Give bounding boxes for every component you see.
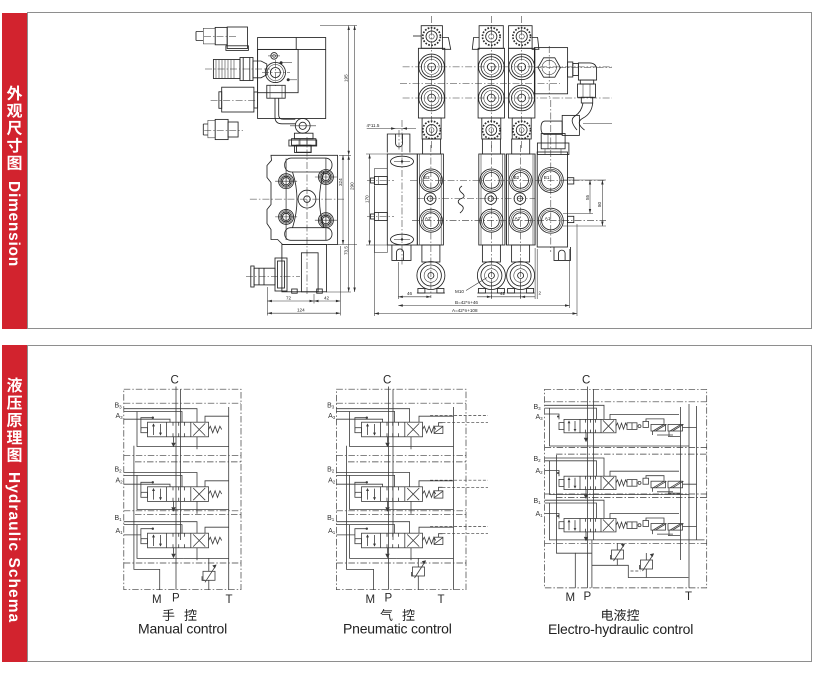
load check arrow under V3 (S2) [385,548,389,558]
body right end section [535,152,567,247]
svg-text:Hydraulic Schema: Hydraulic Schema [5,472,22,623]
P and C lines S1 [176,387,181,590]
pilot screw [268,53,280,60]
directional valve V1 (pneumatic) [355,417,436,437]
svg-text:A2: A2 [116,478,124,485]
center port circle (left view) [298,190,316,208]
M P T labels S1 [152,593,233,607]
caption S3 [602,609,613,621]
connections S3 [545,405,697,540]
load check arrow under V3 (S3) [584,532,588,542]
bottom pilot caps [417,245,445,293]
relief valve RV2 S3 [640,553,655,571]
stems joining columns to body [423,139,530,154]
directional valve V2 (pneumatic) [355,481,436,501]
right end bolts [568,178,574,223]
boundary box S2 [336,389,466,590]
bottom section box [27,345,812,662]
ports B3/A3 section1 [419,169,442,232]
connections S1 [124,409,229,561]
M P T labels S3 [566,591,693,604]
dim 2 [535,248,541,299]
load check arrow under V3 [171,548,175,558]
ports B1/A1 right end [538,168,563,234]
svg-text:B1: B1 [534,498,542,505]
elbow fitting E1 with hose (top right) [568,62,597,130]
body section 1 [417,154,443,245]
pilot fitting below circle [267,85,285,98]
svg-text:B3: B3 [424,175,430,180]
pilot cover block (left view) [258,38,326,119]
svg-text:55: 55 [585,194,590,200]
svg-text:2: 2 [539,291,542,296]
svg-text:A1: A1 [536,511,544,518]
svg-text:C: C [383,375,391,387]
fitting nut stack under elbow [292,133,316,152]
dim B=42*n+46 [398,249,569,308]
svg-text:M: M [366,594,376,606]
directional valve V3 (electro-hydraulic) [559,518,684,536]
relief valve S1 [202,565,217,583]
svg-text:B2: B2 [115,467,123,474]
svg-text:A2: A2 [536,468,544,475]
svg-text:42: 42 [324,295,330,300]
svg-text:B1: B1 [115,515,123,522]
svg-text:A3: A3 [536,414,544,421]
bottom mounting tab (left) [392,245,411,260]
connector J2 (left view, bottom-left) [203,119,243,139]
svg-text:B1: B1 [544,175,550,180]
valve body (left view) [267,155,338,244]
dim 72 / 42 (left view bottom) [267,246,340,316]
svg-text:B3: B3 [115,403,123,410]
M line S3 [557,455,576,588]
svg-text:C: C [582,375,590,387]
dim 46 [398,262,431,299]
connections S2 [336,409,453,561]
svg-text:A3: A3 [116,413,124,420]
red banner: Hydraulic Schema [2,345,27,662]
hex nipple fitting (left view) [205,58,270,81]
M10 label [455,278,487,295]
dim 124 (left view bottom) [267,308,340,315]
svg-text:195: 195 [344,74,349,82]
solenoid pilot valve S1 (left view, top-left) [196,27,248,50]
svg-text:B1: B1 [327,515,335,522]
test point dots [280,61,297,81]
bolt holes with hatch (left view body) [275,159,297,241]
elbow fitting E2 (right, above body) [537,115,612,154]
directional valve V1 (manual) [141,417,222,437]
M P T labels S2 [366,593,445,607]
mounting tab 4*11.5 (left of body) [367,123,417,153]
svg-text:Electro-hydraulic control: Electro-hydraulic control [548,621,693,637]
section separators S2 [336,403,466,563]
directional valve V2 (electro-hydraulic) [559,476,684,494]
center lines through top circles [400,67,612,98]
feet (left view) [292,289,323,293]
svg-text:A2: A2 [515,216,521,221]
svg-text:A1: A1 [545,216,551,221]
banner text: Dimension [5,86,22,267]
svg-text:42: 42 [500,291,506,296]
boundary box S3 [545,389,707,588]
pilot cap column 2 (top view) [472,16,504,150]
svg-text:B3: B3 [327,403,335,410]
load check arrow under V2 (S2) [385,501,389,511]
svg-text:324: 324 [338,178,343,186]
bolt bracket strip [375,169,388,253]
dim A=42*n+108 [374,186,577,316]
body section 2 [479,154,507,245]
svg-text:A3: A3 [425,216,431,221]
left plate bolts [367,177,394,221]
svg-text:T: T [226,594,233,606]
directional valve V3 (manual) [141,528,222,548]
P and C lines S2 [389,387,394,590]
port labels S2 [327,403,336,536]
dim 195/324/290/73.5 (left view right side) [320,26,357,293]
section separators S3 [545,402,707,544]
horizontal centerlines through ports [410,180,606,220]
svg-text:80: 80 [597,201,602,207]
M line S2 [347,446,374,590]
load check arrow under V2 [171,501,175,511]
directional valve V2 (manual) [141,481,222,501]
M line S1 [134,446,160,590]
pilot port circle [262,60,290,86]
directional valve V3 (pneumatic) [355,528,436,548]
pilot cap column 1 (top view) [413,16,451,150]
lower spool housing (left view) [282,245,327,292]
svg-text:Dimension: Dimension [5,181,22,267]
bottom piping S3 [575,540,688,588]
banner text: Hydraulic Schema [5,378,22,624]
caption S1 [163,609,175,621]
svg-text:M: M [152,594,162,606]
load check arrow under V1 (S3) [584,433,588,443]
dim 170 [364,154,387,245]
pilot supply line S3 (right) [596,406,704,560]
section separators S1 [124,403,241,563]
ports section2 [480,169,503,232]
pilot cap column 3 (top view) [509,16,539,150]
svg-text:73.5: 73.5 [344,246,349,255]
T line S2 [453,407,455,590]
pneumatic pilot actuator V2 [430,480,488,498]
red banner: Dimension [2,13,27,329]
relief valve S2 [412,560,427,578]
body section 3 [506,154,535,245]
bottom mounting tab (right) [554,247,571,260]
spool end / handle clevis (left view) [246,258,300,291]
load check arrow under V1 (S2) [385,437,389,447]
load check arrow under V1 [171,437,175,447]
hex plug & plate (top view right) [534,46,612,97]
relief cap on body top (left view) [289,140,317,153]
port labels S3 [534,404,544,518]
top section box [27,12,812,329]
dims 55 / 80 [563,180,606,226]
center lines (left view body) [250,137,344,296]
pneumatic pilot actuator V3 [430,527,488,545]
svg-text:4*11.5: 4*11.5 [367,123,380,128]
svg-text:B3: B3 [534,404,542,411]
svg-text:A2: A2 [328,478,336,485]
load check arrow under V2 (S3) [584,490,588,500]
svg-text:124: 124 [297,308,305,313]
svg-text:290: 290 [349,182,354,190]
svg-text:B2: B2 [534,456,542,463]
svg-text:M10: M10 [455,289,464,294]
svg-text:T: T [685,591,692,603]
svg-text:170: 170 [364,195,369,203]
port labels S1 [115,403,124,536]
T line S1 [228,407,230,590]
P and C lines S3 [588,387,594,588]
svg-text:P: P [385,593,393,605]
svg-text:A1: A1 [328,528,336,535]
svg-text:B=42*n+46: B=42*n+46 [455,300,478,305]
svg-text:Pneumatic control: Pneumatic control [343,621,452,637]
pipe down with elbow [275,98,316,133]
solenoid S2 (left view, middle-left) [211,87,258,112]
break squiggle [458,186,464,213]
pneumatic pilot actuator V1 [430,416,488,434]
dim 42 (right) [477,280,535,299]
svg-text:B2: B2 [327,467,335,474]
section centerlines [430,145,432,298]
svg-text:72: 72 [286,295,292,300]
relief valve RV1 S3 [611,543,626,561]
directional valve V1 (electro-hydraulic) [559,419,684,437]
svg-text:A1: A1 [116,528,124,535]
svg-text:Manual control: Manual control [138,621,227,637]
svg-text:P: P [172,593,180,605]
ports B2/A2 section3 [509,169,532,232]
T line S3 [688,404,690,588]
svg-text:A3: A3 [328,413,336,420]
svg-text:A=42*n+108: A=42*n+108 [452,308,478,313]
body left end plate [387,154,417,245]
svg-text:P: P [584,591,592,603]
svg-text:B2: B2 [514,175,520,180]
svg-text:46: 46 [407,291,413,296]
boundary box S1 [124,389,241,590]
caption S2 [380,609,392,621]
svg-text:C: C [171,375,179,387]
svg-text:M: M [566,592,576,604]
svg-text:T: T [438,594,445,606]
